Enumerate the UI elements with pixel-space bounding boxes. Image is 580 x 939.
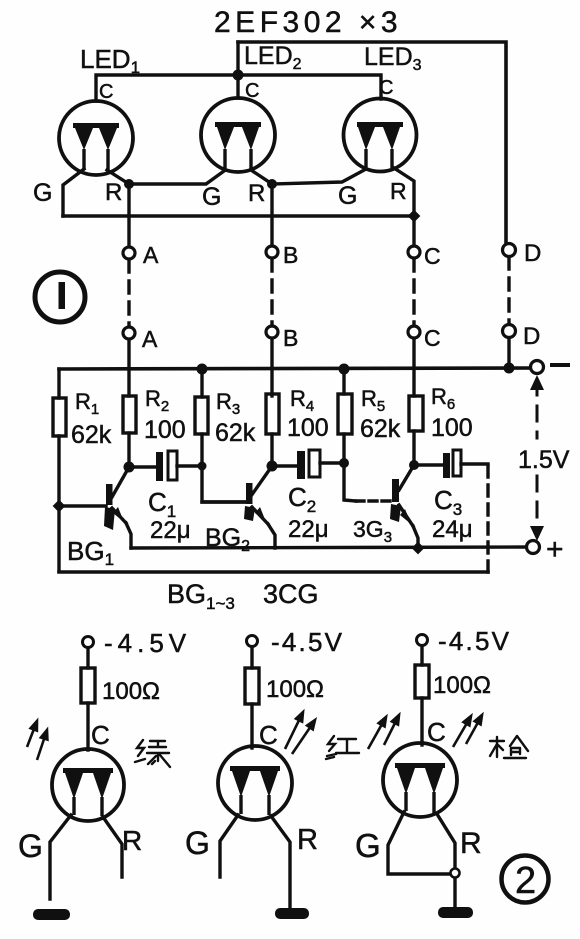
svg-text:BG1: BG1 [67,536,114,569]
svg-text:D: D [524,240,541,267]
svg-text:C3: C3 [434,485,462,519]
svg-text:R: R [105,179,122,206]
svg-text:62k: 62k [360,415,401,443]
svg-text:BG1~3: BG1~3 [167,579,235,613]
svg-text:LED3: LED3 [364,43,422,74]
svg-text:B: B [283,325,298,351]
svg-text:C: C [245,80,259,102]
svg-text:3G3: 3G3 [353,516,392,546]
svg-text:D: D [523,323,540,350]
svg-text:C2: C2 [288,482,316,516]
svg-text:C: C [91,720,110,750]
svg-text:62k: 62k [215,419,256,447]
svg-text:100: 100 [431,414,473,442]
svg-text:R: R [248,180,265,207]
svg-text:LED2: LED2 [244,42,302,73]
svg-text:100Ω: 100Ω [433,672,491,699]
svg-text:-4.5V: -4.5V [438,626,511,656]
svg-text:2: 2 [515,860,536,902]
svg-text:100Ω: 100Ω [266,676,324,703]
svg-text:+: + [546,533,564,566]
svg-text:C: C [99,81,113,103]
svg-text:LED1: LED1 [80,44,140,77]
svg-text:22μ: 22μ [150,517,191,544]
svg-text:BG2: BG2 [205,524,250,555]
svg-text:G: G [33,179,52,207]
svg-text:C: C [427,717,446,747]
svg-text:G: G [338,182,357,210]
svg-text:R: R [460,827,482,860]
svg-text:R5: R5 [361,386,385,415]
svg-text:-4.5V: -4.5V [104,628,191,658]
svg-text:G: G [355,827,381,864]
svg-text:R1: R1 [75,389,99,418]
svg-text:A: A [142,326,158,352]
svg-text:24μ: 24μ [432,516,473,543]
svg-text:G: G [185,825,210,861]
svg-text:R4: R4 [290,386,314,415]
svg-text:100: 100 [144,416,186,444]
svg-text:G: G [18,828,43,864]
svg-text:R: R [390,178,407,204]
svg-text:R3: R3 [216,389,240,418]
svg-text:R6: R6 [431,384,455,413]
svg-text:100Ω: 100Ω [102,678,160,705]
svg-text:2EF302 ×3: 2EF302 ×3 [214,6,402,39]
svg-text:3CG: 3CG [263,579,319,609]
svg-text:C: C [259,720,278,750]
svg-text:B: B [283,242,298,268]
svg-text:C: C [424,243,441,269]
svg-text:A: A [143,242,159,268]
svg-text:R2: R2 [145,386,169,415]
svg-text:62k: 62k [71,421,112,449]
svg-text:1.5V: 1.5V [518,446,570,474]
svg-text:G: G [202,183,221,211]
svg-text:100: 100 [287,414,329,442]
svg-text:R: R [297,824,318,856]
svg-text:C: C [424,325,441,351]
svg-text:C1: C1 [148,487,176,521]
svg-text:C: C [379,77,393,99]
svg-text:R: R [122,825,142,856]
svg-text:22μ: 22μ [288,516,329,543]
svg-text:-4.5V: -4.5V [271,627,344,657]
